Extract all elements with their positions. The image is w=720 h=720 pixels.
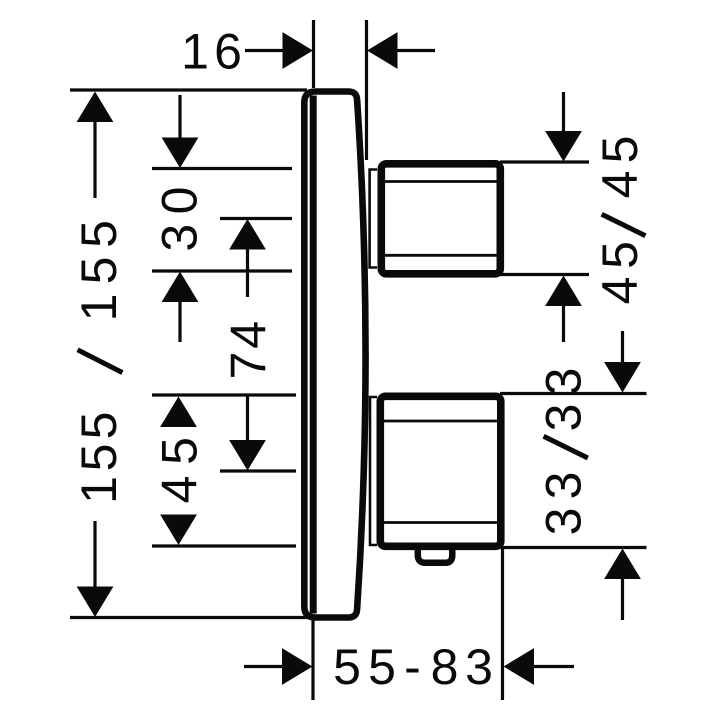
svg-text:5: 5 [592,136,648,164]
svg-text:4: 4 [152,476,208,504]
svg-text:5: 5 [592,241,648,269]
svg-text:0: 0 [152,187,208,215]
svg-text:1: 1 [71,476,127,504]
svg-text:1: 1 [181,23,209,79]
svg-text:5: 5 [152,437,208,465]
svg-text:5: 5 [71,412,127,440]
svg-text:8: 8 [431,639,459,695]
svg-text:-: - [404,639,421,695]
svg-text:5: 5 [71,444,127,472]
svg-text:5: 5 [333,639,361,695]
svg-text:5: 5 [368,639,396,695]
svg-text:5: 5 [71,220,127,248]
svg-text:3: 3 [535,472,591,500]
svg-text:6: 6 [214,23,242,79]
svg-text:3: 3 [535,404,591,432]
svg-text:4: 4 [592,171,648,199]
svg-text:1: 1 [71,294,127,322]
svg-text:5: 5 [71,257,127,285]
svg-text:3: 3 [535,508,591,536]
svg-text:4: 4 [221,321,277,349]
svg-text:7: 7 [221,352,277,380]
svg-text:3: 3 [535,368,591,396]
svg-text:3: 3 [465,639,493,695]
svg-text:4: 4 [592,277,648,305]
svg-text:3: 3 [152,224,208,252]
